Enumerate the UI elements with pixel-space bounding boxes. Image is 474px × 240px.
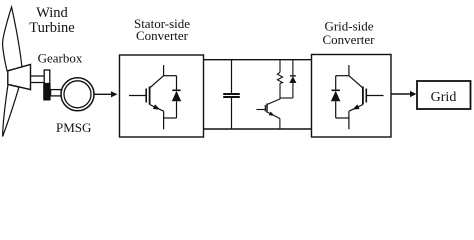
diode D2 cathode lead bbox=[335, 76, 337, 91]
IGBT Q2 collector lead bbox=[348, 65, 350, 76]
chopper transistor Q3 collector slant bbox=[267, 98, 280, 105]
chopper transistor Q3 emitter arrow bbox=[269, 111, 276, 117]
diode D1 cathode lead bbox=[176, 76, 178, 91]
IGBT Q2 gate bar bbox=[365, 89, 367, 103]
arrow grid-side converter to Grid bbox=[391, 91, 417, 97]
high-speed shaft coupling bbox=[51, 90, 62, 96]
gearbox upper block bbox=[44, 70, 50, 84]
chopper transistor Q3 emitter slant bbox=[267, 112, 280, 119]
arrow PMSG to stator-side converter bbox=[94, 91, 117, 97]
resistor R1 bottom lead bbox=[279, 83, 281, 98]
IGBT Q1 emitter arrow bbox=[153, 104, 161, 112]
label Wind Turbine bbox=[29, 5, 74, 36]
wind turbine upper blade bbox=[3, 7, 22, 71]
gearbox lower block (filled) bbox=[43, 84, 50, 101]
chopper diode D3 anode lead bbox=[292, 83, 294, 98]
IGBT Q2 emitter slant bbox=[349, 105, 363, 112]
resistor R1 zigzag bbox=[277, 72, 282, 83]
capacitor C1 top plate bbox=[223, 93, 240, 95]
IGBT Q1 emitter slant bbox=[150, 105, 164, 112]
IGBT Q2 body bar bbox=[362, 87, 364, 105]
IGBT Q2 emitter arrow bbox=[351, 104, 359, 112]
IGBT Q1 emitter lead bbox=[163, 111, 165, 129]
diode D2 anode lead bbox=[335, 101, 337, 118]
chopper diode D3 cathode bar bbox=[290, 75, 296, 77]
chopper transistor Q3 gate bar bbox=[264, 105, 266, 112]
IGBT Q2 emitter lead bbox=[348, 111, 350, 129]
chopper transistor Q3 body bar bbox=[266, 104, 268, 113]
diode D1 anode lead bbox=[176, 101, 178, 118]
svg-text:Gearbox: Gearbox bbox=[38, 51, 83, 66]
IGBT Q1 body bar bbox=[149, 87, 151, 105]
diode D1 cathode bar bbox=[172, 89, 180, 91]
generator PMSG outer circle bbox=[61, 78, 94, 111]
diode D1 triangle bbox=[172, 91, 181, 102]
capacitor C1 top lead bbox=[231, 60, 233, 93]
label Stator-side Converter bbox=[134, 16, 190, 43]
chopper transistor Q3 emitter lead bbox=[279, 119, 281, 130]
svg-text:Wind: Wind bbox=[36, 5, 68, 21]
stator-side converter box bbox=[120, 55, 204, 137]
wire D2 cathode to Q2 collector bbox=[336, 75, 349, 77]
wire Q1 collector to D1 bbox=[164, 75, 177, 77]
IGBT Q1 gate lead bbox=[129, 95, 146, 97]
grid-side converter box bbox=[312, 55, 392, 138]
svg-text:Grid: Grid bbox=[431, 90, 457, 105]
label Grid-side Converter bbox=[323, 19, 376, 48]
low-speed shaft bbox=[31, 76, 45, 83]
diode D2 cathode bar bbox=[332, 89, 340, 91]
diode D2 triangle bbox=[331, 91, 341, 102]
IGBT Q1 collector lead bbox=[163, 65, 165, 76]
chopper diode D3 triangle bbox=[289, 76, 296, 83]
DC link top rail bbox=[204, 59, 312, 61]
wire D2 anode to Q2 emitter bbox=[336, 117, 349, 119]
Grid box bbox=[417, 81, 471, 109]
svg-text:Turbine: Turbine bbox=[29, 20, 74, 36]
capacitor C1 bottom lead bbox=[231, 98, 233, 129]
IGBT Q1 collector slant bbox=[150, 76, 164, 88]
wire chopper junction bbox=[280, 97, 293, 99]
svg-text:Converter: Converter bbox=[136, 28, 189, 43]
capacitor C1 bottom plate bbox=[223, 96, 240, 98]
wire D1 anode to Q1 emitter bbox=[164, 117, 177, 119]
DC link bottom rail bbox=[204, 128, 312, 130]
resistor R1 top lead bbox=[279, 60, 281, 73]
IGBT Q2 gate lead bbox=[367, 95, 384, 97]
wind turbine lower blade bbox=[3, 85, 19, 137]
svg-text:PMSG: PMSG bbox=[56, 120, 91, 135]
chopper transistor Q3 base lead bbox=[257, 109, 266, 111]
chopper diode D3 cathode lead bbox=[292, 60, 294, 76]
generator PMSG inner circle bbox=[64, 81, 91, 108]
wind turbine nacelle (hub) bbox=[8, 64, 31, 89]
svg-text:Converter: Converter bbox=[323, 32, 376, 47]
IGBT Q1 gate bar bbox=[145, 89, 147, 103]
IGBT Q2 collector slant bbox=[349, 76, 363, 88]
